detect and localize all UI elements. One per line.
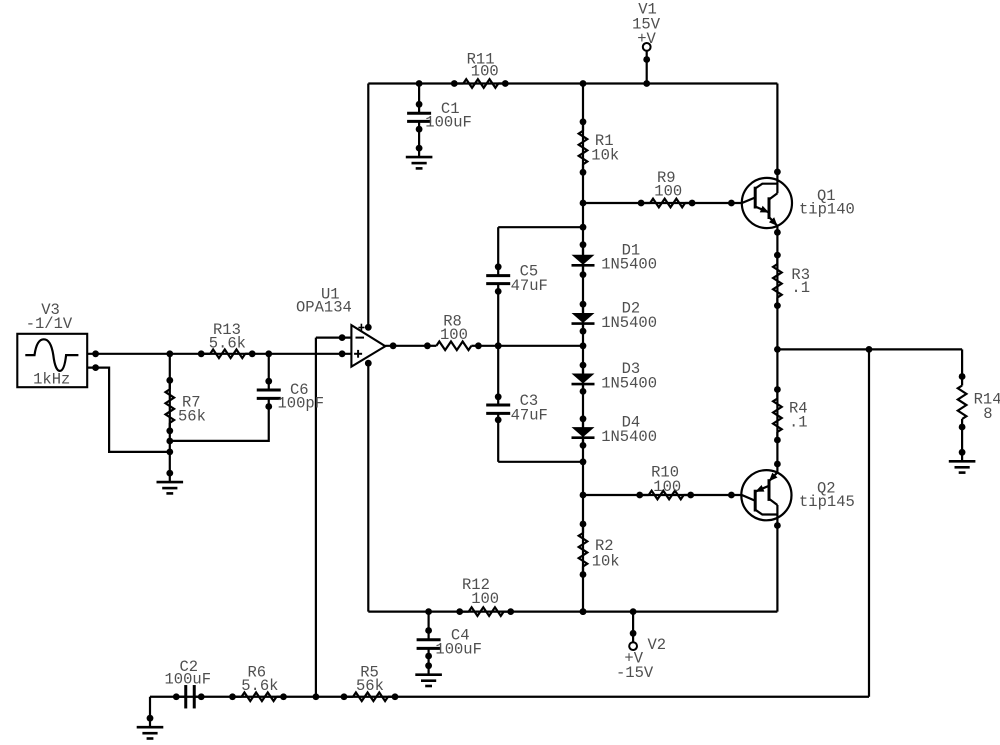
svg-text:8: 8	[983, 405, 992, 423]
svg-text:+V: +V	[637, 30, 656, 48]
svg-text:1N5400: 1N5400	[601, 256, 657, 274]
svg-text:100: 100	[471, 590, 499, 608]
svg-text:100uF: 100uF	[425, 114, 472, 132]
svg-text:1N5400: 1N5400	[601, 428, 657, 446]
svg-text:tip145: tip145	[799, 493, 855, 511]
svg-text:1kHz: 1kHz	[33, 371, 70, 389]
svg-text:56k: 56k	[356, 677, 384, 695]
svg-text:.1: .1	[791, 279, 810, 297]
svg-text:47uF: 47uF	[511, 406, 548, 424]
svg-text:100: 100	[653, 478, 681, 496]
svg-text:47uF: 47uF	[511, 277, 548, 295]
svg-text:OPA134: OPA134	[296, 299, 352, 317]
svg-text:1N5400: 1N5400	[601, 314, 657, 332]
svg-text:-1/1V: -1/1V	[26, 315, 73, 333]
svg-text:1N5400: 1N5400	[601, 374, 657, 392]
svg-text:5.6k: 5.6k	[241, 677, 278, 695]
svg-text:100pF: 100pF	[278, 394, 325, 412]
svg-text:tip140: tip140	[799, 201, 855, 219]
svg-text:V2: V2	[648, 636, 667, 654]
svg-text:100: 100	[654, 182, 682, 200]
svg-text:56k: 56k	[178, 407, 206, 425]
svg-text:100uF: 100uF	[435, 641, 482, 659]
svg-text:.1: .1	[789, 413, 808, 431]
svg-text:5.6k: 5.6k	[209, 334, 246, 352]
svg-text:10k: 10k	[591, 146, 619, 164]
svg-text:100uF: 100uF	[165, 671, 212, 689]
svg-text:100: 100	[471, 63, 499, 81]
svg-text:-15V: -15V	[616, 664, 654, 682]
svg-text:10k: 10k	[592, 553, 620, 571]
svg-text:100: 100	[440, 326, 468, 344]
